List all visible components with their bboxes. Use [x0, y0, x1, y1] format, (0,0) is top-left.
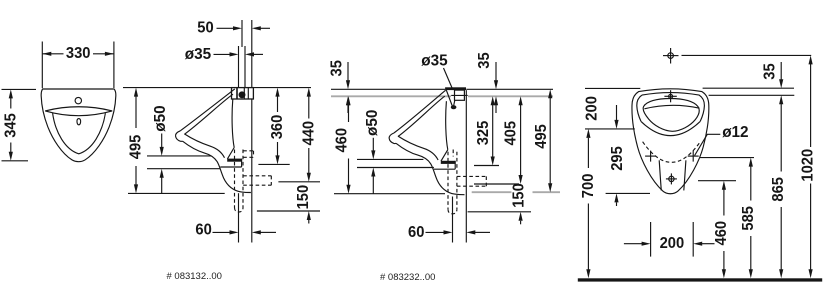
svg-text:60: 60 — [408, 224, 424, 241]
dim 200 bottom — [624, 243, 642, 245]
outlet bottom — [434, 168, 455, 170]
dim 295 lower arrow — [614, 193, 618, 202]
bowl inner line — [184, 134, 224, 158]
concealed wall outlet dashed cap — [270, 176, 272, 185]
dim 440 bottom extension — [278, 181, 320, 183]
dim 360 — [275, 88, 279, 97]
svg-text:460: 460 — [334, 128, 351, 153]
dim 325 — [491, 96, 495, 105]
front channel left — [659, 160, 661, 190]
svg-text:360: 360 — [269, 115, 286, 140]
connector box — [232, 88, 254, 99]
rim top line right — [703, 87, 794, 89]
urinal nose — [389, 133, 396, 144]
dim 295 bottom extension — [606, 192, 650, 194]
svg-text:865: 865 — [770, 177, 787, 202]
wall line — [251, 20, 253, 243]
dim 200 left — [616, 105, 618, 120]
svg-text:# 083132..00: # 083132..00 — [167, 271, 222, 282]
connector cross line — [451, 94, 468, 96]
urinal inner rim top — [642, 93, 705, 122]
outlet ledge bar — [441, 161, 455, 164]
svg-text:50: 50 — [197, 20, 213, 37]
concealed wall outlet dashed top — [457, 175, 486, 177]
concealed wall outlet dashed bottom — [243, 184, 271, 186]
dim 460 — [722, 181, 726, 190]
svg-text:585: 585 — [740, 206, 757, 231]
bowl underside curve — [182, 141, 251, 192]
svg-text:495: 495 — [128, 135, 145, 160]
wall line — [465, 90, 467, 242]
dim 495 — [134, 88, 138, 97]
urinal top slope outer — [394, 90, 446, 133]
connector funnel right — [454, 100, 455, 106]
svg-text:150: 150 — [510, 183, 527, 208]
svg-text:ø50: ø50 — [364, 110, 381, 136]
svg-text:ø35: ø35 — [185, 46, 211, 63]
urinal rim upper arc — [45, 107, 112, 111]
rim centre cross — [670, 90, 672, 102]
water line arc — [644, 105, 699, 108]
svg-text:ø50: ø50 — [152, 105, 169, 131]
urinal inner bowl — [53, 113, 106, 154]
hidden bowl edge dashed — [643, 142, 701, 163]
svg-text:200: 200 — [583, 96, 600, 121]
svg-text:295: 295 — [609, 146, 626, 171]
dim 585 — [749, 158, 753, 167]
outlet diagonal — [441, 150, 448, 161]
dim 150 lower arrow — [519, 212, 523, 221]
urinal inner rim left — [637, 95, 642, 121]
svg-text:405: 405 — [503, 121, 520, 146]
outlet end cap — [454, 161, 456, 169]
fixing hole cross left — [650, 151, 652, 162]
dim o50 extension top — [357, 158, 423, 160]
rim top extension left — [585, 87, 640, 89]
wall level gray line right — [468, 95, 553, 97]
concealed drain pipe dashed left — [234, 150, 236, 208]
urinal top slope inner — [184, 94, 233, 134]
svg-text:35: 35 — [476, 52, 493, 68]
connector outlet blob — [451, 105, 457, 109]
dim 495 bottom extension — [128, 192, 225, 194]
drain centre line below — [238, 193, 240, 242]
urinal top slope outer — [180, 89, 235, 131]
concealed wall outlet dashed cap — [485, 176, 487, 186]
drain centre line below — [452, 197, 454, 243]
urinal outer outline front — [41, 89, 116, 162]
svg-text:ø12: ø12 — [722, 124, 748, 141]
fixing hole cross right — [692, 151, 694, 162]
svg-text:330: 330 — [66, 45, 91, 62]
dim 200 bottom extension left — [650, 222, 652, 257]
dim 150 lower arrow — [307, 211, 311, 220]
svg-text:345: 345 — [2, 113, 19, 138]
svg-text:200: 200 — [660, 235, 685, 252]
concealed upper dashed marks — [452, 150, 454, 157]
drain teardrop — [77, 119, 81, 125]
urinal outer outline — [632, 89, 709, 194]
inlet hole circle — [75, 97, 81, 103]
supply pipe wall right — [244, 46, 246, 88]
rim level line right — [466, 88, 553, 90]
svg-text:ø35: ø35 — [421, 52, 447, 69]
bowl opening loop — [643, 99, 699, 132]
rim level line left — [331, 88, 445, 90]
outlet ledge bar — [227, 159, 241, 162]
bowl back inner line — [232, 99, 234, 148]
dim o50 extension bottom — [357, 167, 434, 169]
dim 345 extension line top — [2, 88, 37, 90]
svg-text:700: 700 — [580, 174, 597, 199]
svg-text:460: 460 — [713, 221, 730, 246]
dim 405 — [519, 96, 523, 105]
dim 345 extension line bottom — [2, 160, 29, 162]
concealed drain pipe dashed right — [242, 150, 244, 208]
dim 360 bottom extension — [258, 163, 289, 165]
dim 150 bottom extension — [257, 210, 320, 212]
concealed wall outlet dashed top — [243, 175, 271, 177]
dim 330 extension line right — [113, 42, 115, 89]
concealed drain pipe dashed cap — [235, 208, 244, 213]
outlet cross — [670, 173, 672, 184]
svg-text:325: 325 — [475, 121, 492, 146]
urinal nose — [176, 131, 183, 142]
dim 440 — [307, 88, 311, 97]
dim 495 — [548, 89, 552, 98]
svg-text:35: 35 — [329, 60, 346, 76]
dim 460 bottom extension — [334, 193, 445, 195]
outlet bottom — [220, 166, 241, 168]
outlet diagonal — [227, 148, 234, 159]
supply pipe wall left — [238, 46, 240, 88]
connector bar — [445, 87, 466, 90]
bowl inner line — [398, 136, 438, 160]
urinal rim lower arc — [45, 111, 112, 116]
o12 leader — [695, 134, 721, 155]
svg-text:150: 150 — [295, 185, 312, 210]
dim 200 left bottom extension — [585, 128, 635, 130]
svg-text:35: 35 — [762, 63, 779, 79]
floor line — [578, 278, 822, 281]
dim 1020 — [809, 55, 813, 64]
wall reference line right — [709, 94, 795, 96]
supply height reference line — [682, 54, 812, 56]
svg-text:440: 440 — [300, 121, 317, 146]
dim 345 — [9, 89, 13, 98]
dim 330 extension line left — [41, 42, 43, 89]
top reference line — [123, 87, 311, 89]
svg-text:495: 495 — [533, 124, 550, 149]
connector body — [455, 90, 465, 100]
svg-text:60: 60 — [195, 222, 211, 239]
supply pipe centre extension — [241, 20, 243, 47]
dim 460 top extension — [698, 180, 736, 182]
concealed upper outlet dashed — [243, 150, 253, 152]
concealed drain pipe dashed left — [447, 152, 449, 210]
bowl lower lip — [641, 121, 700, 135]
o35 leader line — [444, 68, 453, 89]
dim 200 bottom extension right — [692, 222, 694, 257]
dim 405 bottom extension — [474, 183, 519, 185]
dim 700 — [586, 129, 590, 138]
dim 150 bottom extension — [468, 211, 531, 213]
concealed drain pipe dashed right — [456, 152, 458, 210]
concealed drain pipe dashed cap — [448, 209, 457, 214]
water supply circle — [668, 53, 674, 59]
concealed wall outlet dashed bottom — [457, 185, 486, 187]
dim 325 bottom extension — [474, 165, 499, 167]
connector dot — [239, 92, 245, 98]
water supply cross — [670, 48, 672, 64]
dim o50 extension bottom — [147, 168, 220, 170]
bowl underside curve — [396, 143, 465, 194]
connector funnel left — [446, 90, 452, 106]
urinal top slope inner — [398, 96, 445, 136]
outlet end cap — [241, 159, 243, 167]
svg-text:# 083232..00: # 083232..00 — [380, 272, 435, 283]
wall level gray line left — [331, 95, 451, 97]
dim 460 — [346, 96, 350, 105]
dim 865 — [780, 112, 782, 172]
front channel right — [684, 160, 686, 190]
outlet cross circle — [669, 176, 674, 181]
dim 585 top extension — [700, 157, 754, 159]
dim 330 — [42, 52, 51, 56]
svg-text:1020: 1020 — [800, 149, 817, 182]
gray bottom reference line right — [472, 191, 512, 193]
rim cross small circle — [669, 94, 673, 98]
dim o50 extension top — [147, 155, 212, 157]
bowl back inner line — [446, 101, 448, 150]
